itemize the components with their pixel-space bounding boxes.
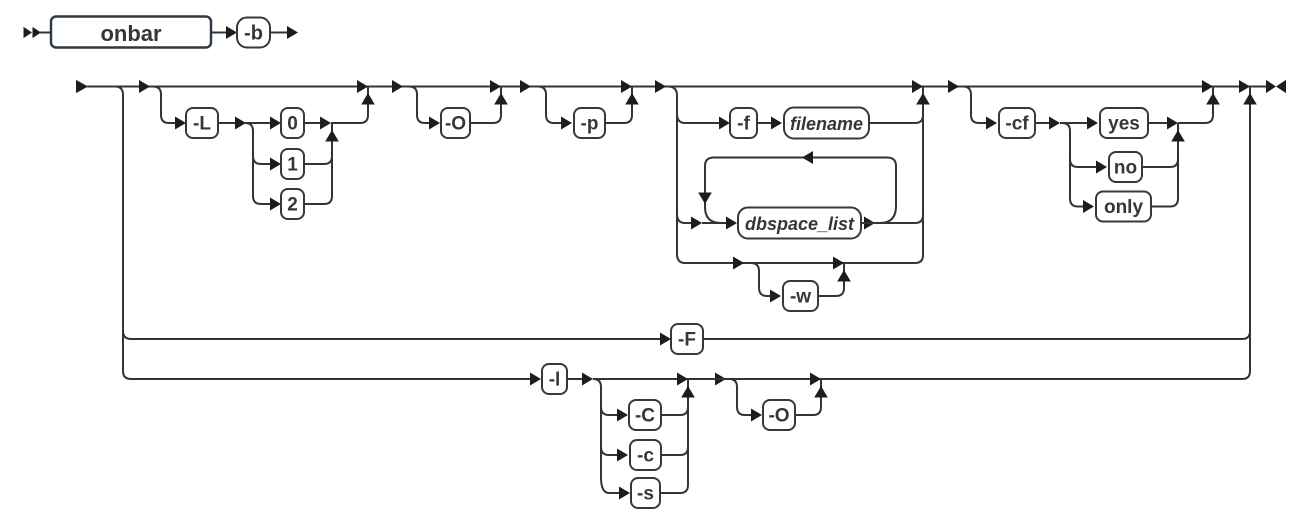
keyword box -l xyxy=(542,364,567,394)
wire after -c xyxy=(661,447,688,455)
wire into -O xyxy=(425,122,431,124)
merge up arrow -C/-c/-s xyxy=(681,386,695,398)
bottom row arrow xyxy=(733,257,744,270)
svg-text:-w: -w xyxy=(790,287,811,308)
keyword box -p xyxy=(574,108,605,138)
main line arrow before -cf xyxy=(948,80,959,93)
keyword box 0 xyxy=(281,108,304,138)
wire dbspace to right vertical xyxy=(861,215,923,223)
wire into no xyxy=(1078,166,1097,168)
choice branch to -C xyxy=(601,407,609,415)
wire -F row right xyxy=(703,331,1250,339)
wire after -w xyxy=(818,263,844,296)
main line skip arrow at group merge xyxy=(912,80,923,93)
branch curve into -f row xyxy=(677,114,685,123)
wire into -p xyxy=(554,122,563,124)
wire into yes xyxy=(1060,122,1088,124)
main line skip arrow at -p merge xyxy=(621,80,632,93)
choice branch to no xyxy=(1070,159,1078,167)
svg-text:-s: -s xyxy=(637,484,654,505)
svg-text:-p: -p xyxy=(581,114,599,135)
right vertical to main line xyxy=(1249,87,1251,372)
keyword box -F xyxy=(671,324,703,354)
keyword box -c xyxy=(630,440,661,470)
merge up arrow -O (log) xyxy=(814,386,828,398)
arrow before -O option xyxy=(715,373,726,386)
merge up arrow -p xyxy=(625,93,639,105)
wire after 1 xyxy=(304,156,332,164)
-l row skip arrow xyxy=(677,373,688,386)
merge up arrow -cf group xyxy=(1206,93,1220,105)
wire into -cf xyxy=(979,122,988,124)
wire into -f xyxy=(685,122,720,124)
merge up arrow big group xyxy=(916,93,930,105)
wire after yes xyxy=(1148,122,1168,124)
branch down to -O xyxy=(409,87,425,124)
keyword box 2 xyxy=(281,189,304,219)
wire after -cf xyxy=(1035,122,1050,124)
wire yes-row to merge up xyxy=(1178,87,1213,124)
variable box filename xyxy=(784,108,869,139)
wire into -s xyxy=(609,492,620,494)
wire after 2 xyxy=(304,196,332,204)
svg-text:-cf: -cf xyxy=(1005,114,1029,135)
main line arrow before group xyxy=(655,80,666,93)
merge wire -C/-c/-s xyxy=(687,379,689,485)
start symbol (row 1) xyxy=(24,27,33,38)
svg-text:filename: filename xyxy=(790,114,863,134)
keyword box -C xyxy=(629,400,661,430)
merge up arrow -w xyxy=(837,270,851,282)
merge up arrow -O xyxy=(494,93,508,105)
svg-text:-b: -b xyxy=(244,23,263,45)
branch down to -O (log) xyxy=(729,379,745,415)
wire into -c xyxy=(609,454,618,456)
wire after -p xyxy=(605,87,632,124)
choice branch to 1 xyxy=(253,156,261,164)
wire after -O (log) xyxy=(795,379,821,415)
svg-text:-C: -C xyxy=(635,406,655,427)
wire -l row middle xyxy=(688,371,1250,379)
main line arrow before -p xyxy=(520,80,531,93)
arrow after dbspace_list xyxy=(864,217,875,230)
branch down to -L xyxy=(153,87,169,124)
wire into -l xyxy=(131,378,532,380)
wire into -C xyxy=(609,414,618,416)
variable box dbspace_list xyxy=(738,208,861,239)
main line skip arrow at -cf merge xyxy=(1202,80,1213,93)
keyword box onbar xyxy=(51,17,211,48)
keyword box -cf xyxy=(999,108,1035,138)
main line arrow before -O xyxy=(392,80,403,93)
bottom row wire xyxy=(685,262,844,264)
-l row skip arrow at -O merge xyxy=(810,373,821,386)
svg-text:-l: -l xyxy=(549,370,561,391)
wire after only xyxy=(1151,199,1178,207)
keyword box -L xyxy=(186,108,218,138)
wire into 2 xyxy=(261,203,271,205)
wire filename to right vertical xyxy=(869,115,923,123)
wire after no xyxy=(1142,159,1178,167)
branch curve into dbspace row xyxy=(677,214,685,223)
wire 0-row to merge up xyxy=(331,87,368,124)
keyword box no xyxy=(1109,152,1142,182)
wire -l skip xyxy=(593,378,688,380)
wire after -O xyxy=(470,87,501,124)
choice split yes/no/only xyxy=(1062,123,1078,207)
wire into 1 xyxy=(261,163,271,165)
wire after -l xyxy=(567,378,583,380)
main line arrow before end xyxy=(1239,80,1250,93)
svg-text:no: no xyxy=(1114,158,1137,179)
wire row1 start to onbar xyxy=(40,32,51,34)
merge wire no/only up to yes-row xyxy=(1177,123,1179,199)
choice split for 0/1/2 xyxy=(245,123,261,204)
svg-text:yes: yes xyxy=(1108,114,1140,135)
bottom row wire to right vertical xyxy=(844,255,923,263)
wire -f to filename xyxy=(757,122,772,124)
main line arrow after branch xyxy=(139,80,150,93)
main line start arrow xyxy=(76,80,88,93)
main line skip arrow at -O merge xyxy=(490,80,501,93)
wire into -w xyxy=(767,295,772,297)
keyword box -w xyxy=(783,281,818,311)
wire into dbspace row xyxy=(685,222,692,224)
keyword box 1 xyxy=(281,149,304,179)
keyword box only xyxy=(1096,192,1151,222)
wire after -b xyxy=(270,32,288,34)
branch curve into -F row xyxy=(123,331,131,339)
repeat loop down arrow xyxy=(698,193,712,205)
branch down to -w xyxy=(751,263,767,296)
wire loop join to dbspace box xyxy=(702,222,727,224)
repeat loop left arrow xyxy=(802,151,813,164)
branch down of big group xyxy=(668,87,685,264)
svg-text:-f: -f xyxy=(737,114,750,135)
svg-text:dbspace_list: dbspace_list xyxy=(745,214,855,234)
svg-text:-c: -c xyxy=(637,446,654,467)
wire after -C xyxy=(661,407,688,415)
wire into 0 xyxy=(246,122,271,124)
repeat loop wire xyxy=(705,158,896,224)
svg-text:-F: -F xyxy=(678,330,696,351)
merge up arrow no/only xyxy=(1171,130,1185,142)
keyword box -O (log) xyxy=(763,400,795,430)
svg-text:-O: -O xyxy=(445,114,466,135)
svg-text:2: 2 xyxy=(287,195,298,216)
svg-text:onbar: onbar xyxy=(100,21,162,46)
svg-text:only: only xyxy=(1104,197,1143,218)
wire into -L xyxy=(169,122,177,124)
keyword box -s xyxy=(631,478,660,508)
wire after -s xyxy=(660,485,688,493)
bottom row skip arrow at -w merge xyxy=(833,257,844,270)
wire -F row left xyxy=(131,338,661,340)
merge up arrow right vertical xyxy=(1243,93,1257,105)
keyword box -b xyxy=(237,18,270,48)
svg-text:-O: -O xyxy=(768,406,789,427)
keyword box -f xyxy=(730,108,757,138)
branch down to -p xyxy=(538,87,554,124)
main line wire xyxy=(87,86,1266,88)
wire after 0 xyxy=(304,122,321,124)
svg-text:0: 0 xyxy=(287,114,298,135)
wire into only xyxy=(1078,206,1084,208)
branch down to -F and -l rows xyxy=(115,87,131,380)
end symbol xyxy=(1266,80,1276,93)
wire after -L xyxy=(218,122,237,124)
merge up arrow 1/2 xyxy=(325,130,339,142)
branch down to -cf xyxy=(963,87,979,124)
choice branch to -c xyxy=(601,447,609,455)
merge wire 1/2 up to 0-row xyxy=(331,123,333,196)
keyword box -O xyxy=(441,108,470,138)
svg-text:1: 1 xyxy=(287,155,298,176)
choice split -C/-c/-s xyxy=(593,379,609,493)
main line skip arrow at -L merge xyxy=(357,80,368,93)
svg-text:-L: -L xyxy=(193,114,211,135)
keyword box yes xyxy=(1100,108,1148,138)
wire into -O (log) xyxy=(745,414,753,416)
right vertical of big group xyxy=(922,87,924,256)
wire onbar to -b xyxy=(211,32,228,34)
merge up arrow -L group xyxy=(361,93,375,105)
